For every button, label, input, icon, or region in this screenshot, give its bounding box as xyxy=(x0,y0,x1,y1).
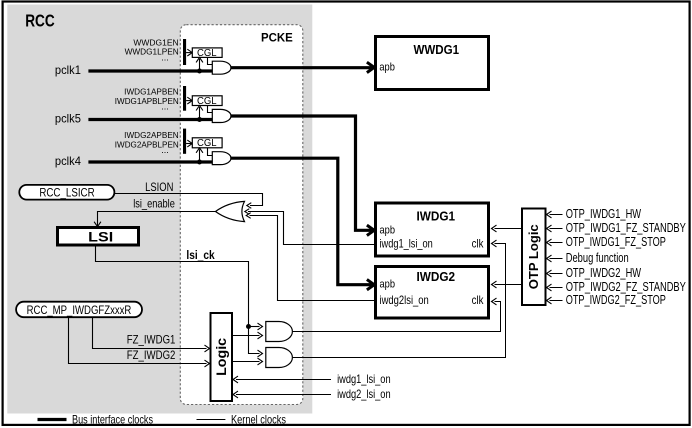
wire LSION xyxy=(114,194,262,206)
enable bus bar row1 (pclk1/WWDG1) xyxy=(183,39,186,65)
svg-text:Logic: Logic xyxy=(213,338,229,376)
enable bus bar row2 (pclk5/IWDG1) xyxy=(183,86,186,111)
svg-text:OTP Logic: OTP Logic xyxy=(527,224,541,289)
CGL block row2 (pclk5/IWDG1) xyxy=(192,96,222,106)
junction lsi_ck branch xyxy=(246,324,251,329)
svg-text:apb: apb xyxy=(380,279,396,291)
svg-text:apb: apb xyxy=(379,62,395,74)
wire CGL gating out row1 (pclk1/WWDG1) xyxy=(208,57,213,64)
wire OTP Logic to IWDG2 xyxy=(495,284,523,286)
svg-text:RCC_MP_IWDGFZxxxR: RCC_MP_IWDGFZxxxR xyxy=(27,303,132,317)
svg-text:WWDG1: WWDG1 xyxy=(413,42,459,57)
wire bar to CGL row2 (pclk5/IWDG1) xyxy=(186,100,191,102)
wire iwdg2lsi_on to OR input xyxy=(250,216,376,301)
wire pclk1 (bus clock) xyxy=(88,69,212,72)
svg-text:...: ... xyxy=(161,53,169,63)
wire lsi_ck branch to AND gate xyxy=(249,326,260,328)
wire OTP_IWDG2_HW stub xyxy=(550,273,563,275)
svg-text:...: ... xyxy=(161,102,169,112)
wire lsi_enable to LSI xyxy=(98,212,217,226)
wire clock sense up to CGL row3 (pclk4/IWDG2) xyxy=(199,149,201,162)
wire bar to CGL row3 (pclk4/IWDG2) xyxy=(186,143,191,145)
svg-text:PCKE: PCKE xyxy=(261,31,293,45)
block RCC_LSICR xyxy=(19,185,114,200)
AND gate K1 (lsi_ck gate upper) xyxy=(266,322,293,342)
wire pclk5 (bus clock) xyxy=(88,118,212,121)
junction pclk5-CGL xyxy=(197,117,202,122)
svg-text:WWDG1LPEN: WWDG1LPEN xyxy=(125,48,179,57)
svg-text:iwdg1_lsi_on: iwdg1_lsi_on xyxy=(337,372,391,386)
wire clock sense up to CGL row1 (pclk1/WWDG1) xyxy=(199,59,201,71)
junction pclk1-CGL xyxy=(197,69,202,74)
wire K2 out to IWDG1 clk xyxy=(293,244,506,358)
svg-text:Bus interface clocks: Bus interface clocks xyxy=(72,412,153,426)
wire Logic freeze2 to AND gate xyxy=(233,361,260,363)
svg-text:FZ_IWDG2: FZ_IWDG2 xyxy=(127,348,176,362)
svg-text:IWDG1: IWDG1 xyxy=(417,208,456,223)
svg-text:CGL: CGL xyxy=(197,138,217,149)
wire bar to CGL row1 (pclk1/WWDG1) xyxy=(186,52,191,54)
wire Logic freeze1 to AND gate xyxy=(233,335,260,337)
wire OTP_IWDG2_FZ_STANDBY stub xyxy=(550,287,563,289)
AND gate CG3 xyxy=(212,152,231,165)
svg-text:LSION: LSION xyxy=(145,180,173,194)
svg-text:IWDG1APBLPEN: IWDG1APBLPEN xyxy=(115,97,179,106)
block OTP Logic xyxy=(522,209,546,306)
legend kernel clocks sample xyxy=(197,419,226,421)
svg-text:pclk4: pclk4 xyxy=(55,154,81,168)
svg-text:OTP_IWDG1_FZ_STOP: OTP_IWDG1_FZ_STOP xyxy=(566,234,666,249)
svg-text:OTP_IWDG2_FZ_STOP: OTP_IWDG2_FZ_STOP xyxy=(566,292,666,307)
svg-text:iwdg2_lsi_on: iwdg2_lsi_on xyxy=(337,387,391,401)
AND gate CG1 xyxy=(212,61,231,74)
svg-text:Kernel clocks: Kernel clocks xyxy=(231,412,286,426)
wire iwdg1_lsi_on feedback into Logic xyxy=(236,379,331,381)
AND gate CG2 xyxy=(212,109,231,122)
wire gated pclk5 to IWDG1 apb xyxy=(230,116,373,230)
block WWDG1 xyxy=(376,37,489,90)
svg-text:Debug function: Debug function xyxy=(566,250,629,265)
wire clock sense up to CGL row2 (pclk5/IWDG1) xyxy=(199,107,201,120)
wire lsi_ck xyxy=(96,246,260,353)
svg-text:IWDG2: IWDG2 xyxy=(417,269,456,284)
svg-text:pclk5: pclk5 xyxy=(55,112,81,126)
svg-text:iwdg2lsi_on: iwdg2lsi_on xyxy=(380,293,429,307)
wire iwdg1_lsi_on to OR input xyxy=(248,212,376,245)
wire Debug function stub xyxy=(550,258,563,260)
legend bus interface clocks sample xyxy=(38,418,67,421)
svg-text:IWDG2APBEN: IWDG2APBEN xyxy=(124,131,179,140)
svg-text:clk: clk xyxy=(472,237,485,251)
PCKE region xyxy=(180,25,302,405)
wire FZ_IWDG1 xyxy=(93,317,207,348)
block IWDG1 xyxy=(376,203,489,256)
wire OTP_IWDG1_FZ_STOP stub xyxy=(550,242,563,244)
svg-text:WWDG1EN: WWDG1EN xyxy=(133,38,179,47)
wire gated pclk1 to WWDG1 apb xyxy=(230,66,373,69)
svg-text:IWDG1APBEN: IWDG1APBEN xyxy=(124,87,179,96)
wire pclk4 (bus clock) xyxy=(88,160,212,163)
svg-text:...: ... xyxy=(161,145,169,155)
RCC region xyxy=(7,5,312,414)
junction pclk4-CGL xyxy=(197,160,202,165)
OR gate lsi_enable xyxy=(216,201,245,221)
enable bus bar row3 (pclk4/IWDG2) xyxy=(183,129,186,154)
svg-text:CGL: CGL xyxy=(197,96,217,107)
wire OTP_IWDG2_FZ_STOP stub xyxy=(550,300,563,302)
svg-text:RCC: RCC xyxy=(25,11,55,31)
block IWDG2 xyxy=(376,267,489,319)
svg-text:IWDG2APBLPEN: IWDG2APBLPEN xyxy=(115,141,179,150)
block RCC_MP_IWDGFZxxxR xyxy=(16,302,142,318)
CGL block row3 (pclk4/IWDG2) xyxy=(192,138,222,148)
svg-text:iwdg1_lsi_on: iwdg1_lsi_on xyxy=(380,237,433,251)
wire K1 out to IWDG2 clk xyxy=(293,302,501,332)
svg-text:LSI: LSI xyxy=(88,230,113,245)
svg-text:OTP_IWDG1_HW: OTP_IWDG1_HW xyxy=(566,206,642,221)
wire gated pclk4 to IWDG2 apb xyxy=(230,158,373,285)
wire CGL gating out row2 (pclk5/IWDG1) xyxy=(208,106,213,113)
wire iwdg2_lsi_on feedback into Logic xyxy=(236,394,331,396)
svg-text:lsi_ck: lsi_ck xyxy=(186,248,215,262)
AND gate K2 (lsi_ck gate lower) xyxy=(266,348,293,368)
wire FZ_IWDG2 xyxy=(69,317,207,363)
svg-text:OTP_IWDG1_FZ_STANDBY: OTP_IWDG1_FZ_STANDBY xyxy=(566,220,686,235)
svg-text:lsi_enable: lsi_enable xyxy=(133,197,175,211)
svg-text:RCC_LSICR: RCC_LSICR xyxy=(39,187,94,199)
svg-text:FZ_IWDG1: FZ_IWDG1 xyxy=(127,333,176,347)
wire OTP Logic to IWDG1 xyxy=(495,228,523,230)
wire OTP_IWDG1_HW stub xyxy=(550,214,563,216)
svg-text:clk: clk xyxy=(472,293,485,307)
CGL block row1 (pclk1/WWDG1) xyxy=(192,48,222,58)
wire CGL gating out row3 (pclk4/IWDG2) xyxy=(208,148,213,156)
svg-text:pclk1: pclk1 xyxy=(55,63,81,77)
svg-text:apb: apb xyxy=(380,224,396,236)
block LSI xyxy=(58,228,139,246)
wire OTP_IWDG1_FZ_STANDBY stub xyxy=(550,228,563,230)
svg-text:OTP_IWDG2_HW: OTP_IWDG2_HW xyxy=(566,265,642,280)
block Logic xyxy=(211,313,233,401)
